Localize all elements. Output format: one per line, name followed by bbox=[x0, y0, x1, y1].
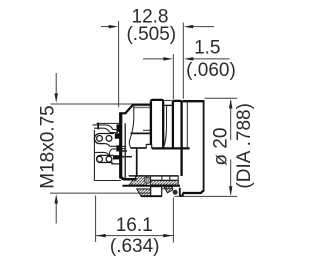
front ring (white filled, thick outline) bbox=[173, 101, 182, 148]
ring left edge bbox=[172, 102, 174, 148]
svg-text:1.5: 1.5 bbox=[194, 38, 220, 59]
dim 1.5 left extension line bbox=[172, 54, 174, 99]
dim 1.5 left leader bbox=[143, 58, 166, 60]
wire line above lug B bbox=[94, 152, 110, 155]
thread root line (gray) bbox=[133, 106, 151, 108]
svg-text:ø 20: ø 20 bbox=[211, 128, 232, 166]
collar top edge bbox=[151, 100, 163, 102]
hatched section A bbox=[129, 176, 146, 185]
internal edge y130 bbox=[143, 129, 151, 131]
o-ring gray (rear) bbox=[145, 177, 151, 183]
svg-text:16.1: 16.1 bbox=[116, 215, 153, 236]
groove floor bbox=[165, 104, 172, 106]
body rear wall (thick dark) bbox=[119, 113, 122, 178]
lower lip hatched bbox=[137, 189, 151, 196]
dim dia20 bottom arrowhead bbox=[229, 186, 233, 196]
dim dia20 bottom extension line bbox=[175, 195, 238, 197]
front face bbox=[203, 100, 205, 191]
bottom band top line bbox=[129, 175, 178, 177]
front bottom edge bbox=[183, 191, 204, 193]
hatched section B bbox=[151, 180, 179, 185]
mid bottom thick line bbox=[123, 185, 181, 187]
dim M18 top arrowhead bbox=[54, 93, 58, 103]
chamfer diagonal bbox=[125, 105, 133, 114]
ring right edge bbox=[180, 102, 182, 176]
funnel lower curve bbox=[109, 149, 116, 155]
mid split step up bbox=[145, 144, 147, 148]
step top edge bbox=[119, 112, 126, 114]
dim dia20 top extension line bbox=[205, 97, 238, 99]
foot profile bbox=[180, 188, 183, 196]
mid split segment C bbox=[146, 143, 151, 145]
dim 1.5 left arrowhead bbox=[163, 57, 173, 61]
ring top edge bbox=[173, 101, 182, 103]
dim 12.8 left leader bbox=[101, 26, 112, 28]
solder lug B dark end bbox=[113, 155, 121, 159]
bezel inner vertical bbox=[186, 102, 188, 148]
cavity wall x138 bbox=[136, 148, 138, 176]
svg-text:(.505): (.505) bbox=[126, 24, 176, 45]
dim dia20 top arrowhead bbox=[229, 99, 233, 109]
dim 1.5 right leader bbox=[191, 58, 230, 60]
dim 16.1 left arrowhead bbox=[96, 234, 106, 238]
collar right edge bbox=[162, 102, 164, 148]
mid split line L2 (thick) bbox=[152, 147, 190, 149]
dim 16.1 right arrowhead bbox=[163, 234, 173, 238]
solder lug A hole 1 bbox=[97, 136, 103, 142]
o-ring dark (front) bbox=[173, 190, 178, 195]
dim M18 top arrow stem bbox=[55, 73, 57, 96]
coupling nut (white filled, thick outline) bbox=[151, 100, 163, 148]
contact pin 1 cross tick bbox=[97, 123, 99, 130]
lug B tail into insert bbox=[121, 156, 132, 158]
contact pin 1 lower line bbox=[94, 127, 104, 129]
insert back face bbox=[93, 130, 95, 181]
thread top edge bbox=[133, 103, 151, 105]
collar left edge bbox=[150, 102, 152, 145]
channel line upper bbox=[120, 145, 127, 147]
dim M18 top extension line bbox=[51, 103, 151, 105]
funnel upper curve bbox=[105, 144, 117, 147]
dim 12.8 right leader bbox=[191, 26, 215, 28]
insert top edge bbox=[97, 122, 120, 124]
dim 16.1 left extension line bbox=[95, 196, 97, 243]
solder lug B hole 2 bbox=[106, 156, 112, 162]
contact pin 1 crimp dark block bbox=[117, 124, 122, 132]
thin ledge line bbox=[162, 188, 173, 190]
dim dia20 dimension line upper segment bbox=[230, 100, 232, 140]
bezel top edge bbox=[183, 100, 205, 102]
contact pin 1 upper bend bbox=[107, 125, 119, 130]
solder lug B outline bbox=[97, 155, 121, 164]
insert shoulder short line bbox=[120, 150, 128, 152]
dim 12.8 right arrowhead bbox=[184, 25, 194, 29]
lower step box bbox=[151, 187, 162, 197]
hex shoulder line bbox=[131, 132, 151, 134]
solder lug A hole 2 bbox=[106, 136, 112, 142]
box divider 2 bbox=[169, 176, 171, 180]
dim 12.8 left extension line bbox=[118, 21, 120, 107]
dim dia20 dimension line lower segment bbox=[230, 160, 232, 195]
dim M18 bottom extension line bbox=[50, 192, 150, 194]
lower step bottom thick bbox=[141, 195, 162, 197]
dim 12.8 right extension line bbox=[182, 23, 184, 99]
dim 16.1 right extension line bbox=[172, 198, 174, 243]
dim 12.8 left arrowhead bbox=[109, 25, 119, 29]
channel line lower bbox=[120, 148, 127, 150]
crimp dark block bbox=[116, 145, 119, 151]
boxes row bbox=[151, 176, 179, 180]
contact pin 1 lower bend bbox=[104, 128, 118, 132]
dim 16.1 dimension line bbox=[96, 235, 173, 237]
insert front wall bbox=[124, 123, 126, 178]
dim M18 bottom arrow stem bbox=[55, 201, 57, 224]
svg-text:(.060): (.060) bbox=[186, 60, 236, 81]
svg-text:M18x0.75: M18x0.75 bbox=[37, 105, 58, 188]
dim M18 bottom arrowhead bbox=[54, 194, 58, 204]
svg-text:(DIA .788): (DIA .788) bbox=[234, 103, 255, 189]
mid split step down bbox=[151, 144, 153, 148]
contact pin 1 upper line bbox=[93, 124, 107, 126]
groove inner vertical bbox=[166, 106, 168, 130]
hatched wedge bbox=[164, 187, 173, 193]
boxes top edge reinforced bbox=[129, 175, 178, 177]
fillet arc right of nut bbox=[164, 130, 167, 147]
corner thick line at bottom of rear wall bbox=[121, 171, 137, 179]
svg-text:(.634): (.634) bbox=[110, 236, 160, 257]
insert bottom edge bbox=[94, 180, 121, 182]
box divider 1 bbox=[161, 176, 163, 180]
dim 1.5 right arrowhead bbox=[184, 57, 194, 61]
groove silhouette line bbox=[164, 99, 172, 101]
solder lug A outline bbox=[94, 134, 114, 144]
mid split segment B bbox=[131, 147, 147, 149]
solder lug A dark end bbox=[115, 133, 121, 138]
solder lug B hole 1 bbox=[97, 156, 103, 162]
internal edge x135 bbox=[129, 106, 134, 148]
